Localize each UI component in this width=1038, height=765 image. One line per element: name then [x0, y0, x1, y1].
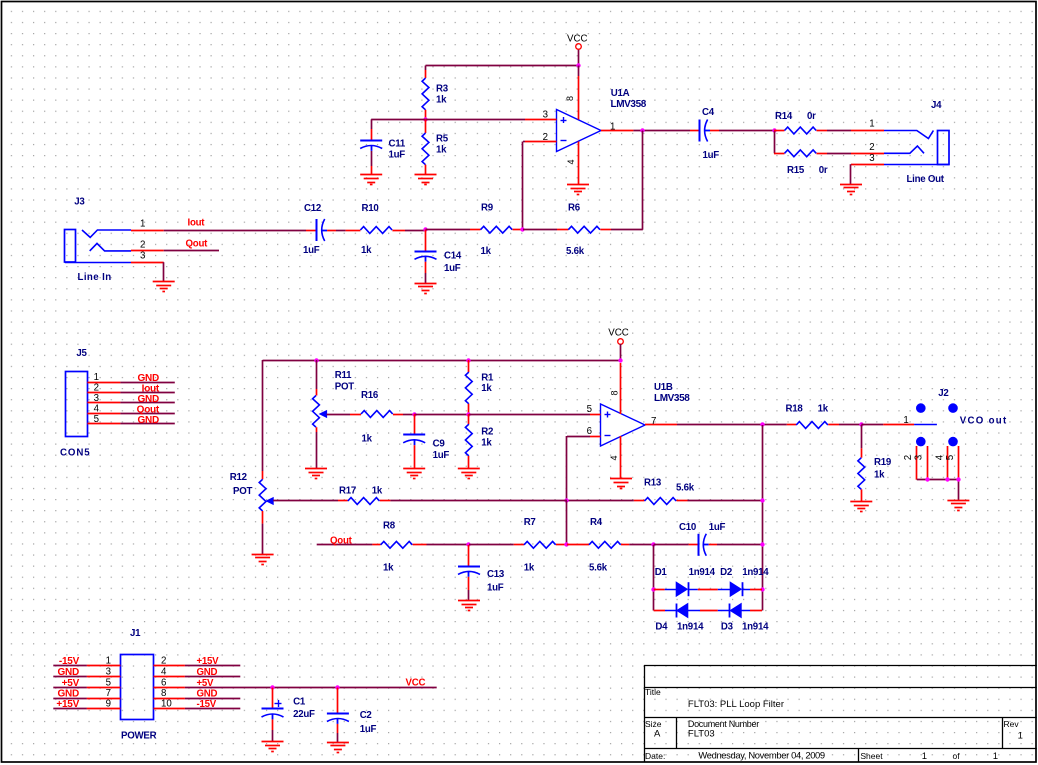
resistor R17	[338, 485, 567, 504]
ground at J4	[840, 184, 862, 186]
svg-text:1: 1	[903, 415, 908, 426]
pin 8 of U1B	[610, 363, 621, 414]
svg-text:4: 4	[94, 403, 100, 414]
resistor R8	[372, 521, 469, 574]
svg-text:1k: 1k	[436, 145, 447, 156]
ground at C2	[327, 742, 349, 744]
svg-text:D2: D2	[720, 567, 732, 578]
svg-text:C9: C9	[433, 438, 446, 449]
title block	[644, 666, 1037, 763]
node R7/R4 junction	[564, 542, 568, 546]
svg-text:POWER: POWER	[121, 730, 157, 741]
diode D2	[718, 567, 769, 596]
ground at J2	[947, 500, 969, 502]
resistor R15	[774, 150, 851, 176]
ground at R2	[458, 468, 480, 470]
capacitor C10	[654, 522, 762, 556]
svg-text:1k: 1k	[481, 438, 492, 449]
svg-text:2: 2	[161, 656, 166, 667]
connector J2 VCO out	[916, 388, 1008, 446]
svg-text:1: 1	[869, 119, 874, 130]
ground at C14	[415, 283, 437, 285]
op-amp U1B	[601, 382, 691, 446]
pin 2 of J2	[903, 446, 917, 480]
pin 2 of J4	[851, 142, 884, 154]
resistor R16	[350, 390, 414, 445]
svg-text:1k: 1k	[481, 383, 492, 394]
wire VCC down to U1A pin8	[578, 66, 580, 77]
svg-text:1k: 1k	[481, 246, 492, 257]
svg-text:2: 2	[903, 455, 914, 460]
node J2 pin3 junction	[925, 477, 929, 481]
svg-text:1uF: 1uF	[303, 245, 320, 256]
resistor R2	[465, 414, 493, 468]
connector J1 POWER	[121, 628, 157, 741]
resistor R3	[422, 70, 449, 119]
svg-text:1n914: 1n914	[677, 622, 704, 633]
svg-text:9: 9	[106, 699, 111, 710]
svg-text:C11: C11	[389, 139, 406, 150]
svg-text:5.6k: 5.6k	[589, 563, 608, 574]
pin 2 of J5 net Iout	[87, 383, 174, 395]
svg-text:2: 2	[543, 132, 548, 143]
ground at C11	[360, 174, 382, 176]
ground at R12	[252, 554, 274, 556]
node R10/C14 junction	[423, 227, 427, 231]
svg-text:1uF: 1uF	[433, 450, 450, 461]
svg-text:22uF: 22uF	[293, 709, 315, 720]
svg-text:D1: D1	[655, 567, 668, 578]
svg-text:1: 1	[922, 751, 927, 762]
resistor R4	[567, 517, 654, 574]
svg-text:3: 3	[140, 251, 145, 262]
pin 4 of J5 net Qout	[87, 403, 174, 415]
wire R16 junction to R1/R2 junction	[414, 414, 469, 416]
svg-text:Sheet: Sheet	[860, 751, 883, 761]
pin 3 of J2	[914, 446, 928, 480]
pin 1 of J4	[851, 119, 884, 131]
svg-text:1uF: 1uF	[444, 263, 461, 274]
svg-text:R14: R14	[775, 111, 793, 122]
svg-text:Date:: Date:	[645, 751, 665, 761]
wire U1B pin6 feedback	[567, 436, 591, 501]
svg-text:3: 3	[94, 393, 99, 404]
svg-text:R12: R12	[230, 472, 247, 483]
resistor R1	[465, 360, 494, 414]
pin 4 of J2	[935, 446, 948, 480]
wire U1B output to R18	[677, 424, 787, 426]
svg-text:3: 3	[869, 153, 874, 164]
svg-text:R6: R6	[568, 202, 581, 213]
node U1A output junction	[640, 128, 644, 132]
ground at R5	[415, 174, 437, 176]
pin 3 of J5 net GND	[87, 393, 174, 405]
svg-text:R4: R4	[590, 517, 603, 528]
pin 8 of J1 net GND	[154, 688, 241, 700]
svg-text:Wednesday, November 04, 2009: Wednesday, November 04, 2009	[698, 750, 825, 761]
svg-text:5: 5	[587, 404, 592, 415]
capacitor C13	[458, 545, 505, 601]
pin 4 of U1A	[566, 142, 579, 185]
svg-text:FLT03: FLT03	[688, 729, 715, 740]
node J2 pin5 junction	[956, 477, 960, 481]
svg-text:1k: 1k	[361, 245, 372, 256]
svg-text:D3: D3	[721, 622, 734, 633]
svg-text:2: 2	[140, 239, 145, 250]
svg-text:3: 3	[106, 666, 111, 677]
resistor R19	[858, 425, 892, 501]
svg-text:J2: J2	[938, 388, 948, 399]
svg-text:LMV358: LMV358	[654, 393, 690, 404]
power symbol VCC (U1A supply)	[567, 34, 587, 66]
wire output to C4	[633, 130, 690, 132]
node D2 right junction	[760, 587, 764, 591]
net VCC wire from J1 pin6	[185, 678, 437, 689]
svg-text:R9: R9	[481, 202, 494, 213]
svg-text:VCC: VCC	[406, 678, 426, 689]
svg-text:C13: C13	[487, 569, 505, 580]
pin 5 of J2	[945, 446, 959, 480]
svg-text:1k: 1k	[818, 404, 829, 415]
svg-text:R13: R13	[644, 478, 662, 489]
pin 10 of J1 net -15V	[154, 699, 241, 711]
svg-text:2: 2	[869, 142, 874, 153]
svg-text:+15V: +15V	[197, 656, 220, 667]
resistor R7	[514, 517, 567, 574]
capacitor C2	[327, 688, 377, 743]
svg-text:1n914: 1n914	[742, 622, 769, 633]
pin 2 of U1A	[525, 132, 557, 143]
svg-text:R10: R10	[362, 203, 379, 214]
ground at C13	[458, 600, 480, 602]
node C9 junction	[412, 412, 416, 416]
svg-text:5: 5	[106, 677, 111, 688]
svg-text:R8: R8	[383, 521, 396, 532]
ground at J3	[153, 281, 175, 283]
svg-text:4: 4	[566, 159, 576, 164]
svg-text:1uF: 1uF	[487, 583, 504, 594]
svg-text:Iout: Iout	[142, 384, 160, 395]
svg-text:C12: C12	[304, 203, 321, 214]
resistor R9	[470, 202, 523, 257]
resistor R13	[567, 478, 762, 505]
svg-text:Qout: Qout	[186, 239, 209, 250]
svg-text:C1: C1	[293, 697, 306, 708]
svg-text:Line Out: Line Out	[907, 174, 945, 185]
svg-text:10: 10	[161, 699, 172, 710]
wire diode branch verticals	[653, 545, 655, 611]
svg-text:of: of	[953, 751, 961, 761]
node D1 left junction	[651, 587, 655, 591]
capacitor C1	[262, 688, 316, 742]
pin 1 of J3	[131, 219, 164, 231]
diode D4	[654, 604, 718, 633]
svg-text:J5: J5	[76, 348, 87, 359]
svg-text:VCC: VCC	[567, 34, 587, 45]
pin 5 of J5 net GND	[87, 414, 174, 426]
pin 3 of U1A	[525, 110, 557, 121]
pin 4 of U1B	[609, 436, 621, 479]
capacitor C4	[690, 107, 774, 161]
node rail junction VCC	[618, 358, 622, 362]
capacitor C12	[303, 203, 346, 256]
svg-text:Document Number: Document Number	[688, 719, 759, 729]
svg-text:GND: GND	[138, 394, 160, 405]
svg-text:Size: Size	[645, 719, 662, 729]
svg-text:1: 1	[94, 372, 99, 383]
node C1 junction	[270, 685, 274, 689]
svg-text:1: 1	[993, 751, 998, 762]
svg-text:7: 7	[106, 688, 111, 699]
capacitor C11	[360, 119, 406, 175]
wire J2 pins to ground	[917, 480, 959, 501]
wire junction to R6	[523, 229, 557, 231]
svg-text:R19: R19	[874, 457, 892, 468]
node J2 pin4 junction	[945, 477, 949, 481]
svg-text:Title: Title	[645, 687, 661, 697]
op-amp U1A	[557, 88, 647, 152]
svg-text:R17: R17	[339, 485, 356, 496]
wire junction to R7	[469, 544, 514, 546]
svg-text:5.6k: 5.6k	[566, 246, 585, 257]
diode D3	[718, 604, 769, 633]
svg-text:0r: 0r	[807, 111, 816, 122]
resistor R10	[346, 203, 426, 256]
pin 6 of U1B	[587, 426, 601, 437]
svg-text:J4: J4	[931, 100, 942, 111]
svg-text:C2: C2	[360, 710, 372, 721]
diode D1	[654, 567, 718, 596]
svg-text:GND: GND	[138, 415, 160, 426]
svg-text:+5V: +5V	[62, 678, 80, 689]
pin 6 of J1 net +5V	[154, 677, 215, 689]
svg-text:4: 4	[609, 455, 619, 460]
pin 1 of J2 wire	[861, 415, 937, 426]
svg-text:U1A: U1A	[611, 88, 630, 99]
svg-text:Qout: Qout	[330, 535, 353, 546]
connector J4 Line Out	[884, 100, 949, 185]
svg-text:GND: GND	[197, 688, 218, 699]
svg-text:1: 1	[1018, 731, 1023, 742]
svg-text:FLT03: PLL Loop Filter: FLT03: PLL Loop Filter	[688, 699, 784, 710]
node C10 right junction	[760, 542, 764, 546]
pin 3 of J4	[851, 153, 884, 165]
ground at C1	[262, 741, 284, 743]
pin 2 of J1 net +15V	[154, 656, 241, 668]
svg-text:R15: R15	[787, 165, 805, 176]
wire VCC rail middle	[263, 360, 622, 465]
svg-text:6: 6	[161, 677, 166, 688]
ground at C9	[403, 468, 425, 470]
svg-text:C10: C10	[679, 522, 696, 533]
svg-text:GND: GND	[197, 667, 218, 678]
ground at U1B pin4	[610, 478, 632, 480]
svg-text:A: A	[654, 729, 661, 740]
svg-text:1k: 1k	[383, 562, 394, 573]
svg-text:J1: J1	[130, 628, 141, 639]
pin 7 output of U1B	[645, 416, 677, 427]
svg-text:R16: R16	[361, 390, 379, 401]
node R3/R5 junction	[423, 117, 427, 121]
svg-text:1: 1	[140, 219, 145, 230]
svg-text:1k: 1k	[372, 485, 383, 496]
pin 4 of J1 net GND	[154, 666, 241, 678]
pin 1 output of U1A	[601, 121, 633, 132]
pin 8 of U1A	[565, 76, 579, 120]
svg-text:Rev: Rev	[1004, 719, 1020, 729]
svg-text:GND: GND	[138, 373, 160, 384]
svg-text:4: 4	[161, 666, 167, 677]
resistor R6	[557, 202, 643, 257]
svg-text:8: 8	[161, 688, 166, 699]
node pin6/R13 junction	[564, 498, 568, 502]
node U1A pin2 junction	[520, 227, 524, 231]
svg-text:5: 5	[94, 414, 99, 425]
svg-text:-15V: -15V	[59, 656, 80, 667]
wire feedback vertical	[642, 131, 644, 230]
wire output junction vertical	[762, 425, 764, 611]
resistor R5	[422, 119, 449, 175]
pin 5 of J1 net +5V	[53, 677, 120, 689]
pin 1 of J5 net GND	[87, 372, 174, 384]
node rail junction R11	[314, 358, 318, 362]
svg-text:0r: 0r	[819, 165, 828, 176]
wire R10 junction to R9	[426, 229, 471, 231]
svg-text:1k: 1k	[874, 469, 885, 480]
svg-text:U1B: U1B	[654, 382, 673, 393]
ground at R11	[305, 468, 327, 470]
svg-text:R2: R2	[481, 427, 493, 438]
node C13 junction	[466, 542, 470, 546]
svg-text:+15V: +15V	[56, 699, 79, 710]
svg-text:6: 6	[587, 426, 592, 437]
svg-text:1: 1	[610, 121, 615, 132]
svg-text:1uF: 1uF	[389, 150, 406, 161]
svg-text:Iout: Iout	[188, 218, 206, 229]
wire junction to U1B pin5	[469, 414, 590, 416]
wire J3 pin3 to ground	[163, 262, 165, 281]
svg-text:R1: R1	[481, 373, 494, 384]
svg-text:D4: D4	[655, 622, 668, 633]
pin 3 of J3	[131, 251, 164, 263]
svg-text:1n914: 1n914	[689, 567, 716, 578]
svg-text:R18: R18	[786, 404, 804, 415]
svg-text:Line In: Line In	[78, 272, 112, 283]
wire U1A pin2 feedback down	[523, 142, 526, 230]
svg-text:5: 5	[945, 455, 956, 460]
svg-text:R5: R5	[436, 134, 449, 145]
svg-text:VCO out: VCO out	[960, 415, 1008, 426]
node diode branch junction	[651, 542, 655, 546]
svg-text:GND: GND	[58, 688, 80, 699]
svg-text:LMV358: LMV358	[611, 99, 647, 110]
wire node to U1A pin3 row	[371, 119, 525, 121]
connector J3 Line In	[65, 196, 132, 283]
pin 2 of J3	[131, 239, 164, 250]
svg-text:-15V: -15V	[197, 699, 217, 710]
svg-text:C14: C14	[444, 251, 462, 262]
pin 9 of J1 net +15V	[53, 699, 120, 711]
node R13/vertical junction	[760, 498, 764, 502]
node R1/R2 junction	[466, 412, 470, 416]
ground at R19	[850, 501, 872, 503]
svg-text:GND: GND	[58, 667, 80, 678]
node R18/R19 junction	[859, 422, 863, 426]
svg-text:1k: 1k	[524, 563, 535, 574]
node C2 junction	[335, 685, 339, 689]
pin 1 of J1 net -15V	[53, 656, 120, 668]
svg-text:3: 3	[914, 455, 925, 460]
resistor R14	[774, 111, 851, 134]
svg-text:R7: R7	[524, 517, 536, 528]
pin 5 of U1B	[587, 404, 601, 415]
capacitor C14	[415, 230, 462, 283]
svg-text:J3: J3	[74, 196, 85, 207]
net Qout stub wire	[164, 239, 219, 251]
svg-text:1uF: 1uF	[703, 150, 720, 161]
svg-text:2: 2	[94, 383, 99, 394]
svg-text:1k: 1k	[362, 434, 373, 445]
pin 3 of J1 net GND	[53, 666, 120, 678]
svg-text:C4: C4	[702, 107, 715, 118]
potentiometer R11	[313, 360, 355, 468]
svg-text:POT: POT	[233, 486, 252, 497]
pin 7 of J1 net GND	[53, 688, 120, 700]
potentiometer R12	[230, 465, 338, 554]
node U1B output junction	[760, 422, 764, 426]
svg-text:1uF: 1uF	[709, 522, 726, 533]
svg-text:Qout: Qout	[137, 404, 160, 415]
connector J5 CON5	[60, 348, 91, 459]
capacitor C9	[403, 414, 449, 468]
net Iout wire	[164, 218, 306, 231]
svg-text:CON5: CON5	[60, 448, 91, 459]
node R14/R15 junction	[772, 128, 776, 132]
svg-text:R3: R3	[436, 84, 449, 95]
svg-text:VCC: VCC	[608, 328, 628, 339]
svg-text:3: 3	[543, 110, 548, 121]
wire VCC rail to R3	[426, 66, 579, 71]
net Qout wire middle	[317, 535, 373, 546]
resistor R18	[786, 404, 862, 429]
node rail junction R1	[466, 358, 470, 362]
svg-text:5.6k: 5.6k	[676, 482, 695, 493]
ground at U1A pin4	[567, 184, 589, 186]
svg-text:R11: R11	[335, 370, 352, 381]
svg-text:POT: POT	[335, 382, 354, 393]
svg-text:7: 7	[651, 416, 656, 427]
svg-text:1n914: 1n914	[742, 567, 769, 578]
svg-text:8: 8	[610, 390, 620, 395]
wire pin6 column down	[566, 501, 568, 545]
svg-text:1: 1	[106, 656, 111, 667]
svg-text:1uF: 1uF	[360, 724, 377, 735]
wire J4 pin3 to ground	[850, 164, 852, 184]
power symbol VCC (U1B supply)	[608, 328, 628, 361]
svg-text:1k: 1k	[436, 95, 447, 106]
svg-text:8: 8	[565, 96, 575, 101]
node VCC junction at U1A pin 8	[576, 63, 580, 67]
